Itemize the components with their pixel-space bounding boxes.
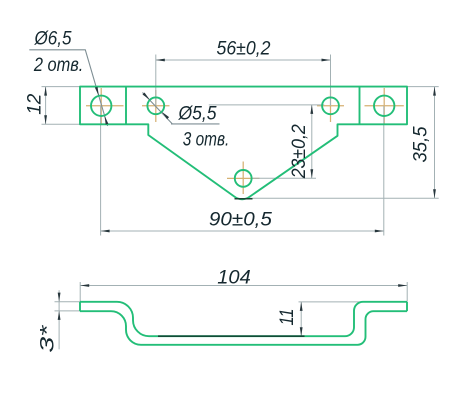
- hole H4 d6.5: [374, 96, 394, 116]
- centerline hole H5: [227, 162, 260, 195]
- dimension 3 line: [58, 290, 60, 349]
- svg-text:104: 104: [217, 267, 251, 289]
- side view right end cap: [406, 302, 408, 311]
- svg-text:12: 12: [23, 94, 45, 115]
- dimension 23 extension lines: [209, 105, 324, 178]
- side view left end cap: [79, 302, 81, 311]
- arrows leader 6,5: [95, 87, 108, 125]
- centerline hole H3: [317, 90, 344, 122]
- dimension 35,5 line: [434, 87, 436, 199]
- dimension 56 extension lines: [156, 55, 331, 106]
- dimension 11 line: [300, 302, 302, 336]
- svg-text:2 отв.: 2 отв.: [33, 54, 83, 76]
- dimension 56 line: [156, 59, 331, 61]
- leader diameter 5,5: [143, 93, 220, 124]
- hole H3 d5.5: [322, 97, 339, 114]
- svg-text:90±0,5: 90±0,5: [209, 209, 272, 231]
- dimension 90 line: [101, 230, 384, 232]
- arrows dimension 56: [156, 59, 331, 62]
- dimension 11 extension line: [299, 301, 364, 303]
- dimension 35,5 extension lines: [249, 87, 438, 199]
- arrows dimension 90: [101, 230, 384, 233]
- arrows dimension 104: [80, 284, 407, 287]
- arrows dimension 3: [58, 293, 61, 320]
- svg-text:11: 11: [276, 309, 298, 326]
- vertex datum dark overlay: [235, 198, 253, 200]
- web top datum dark overlay: [158, 335, 305, 337]
- side view bottom surface: [80, 311, 407, 345]
- dimension 23 line: [311, 105, 313, 178]
- arrows dimension 11: [300, 302, 303, 336]
- dimension 104 extension lines: [80, 282, 407, 302]
- bend line right: [359, 87, 361, 125]
- hole H5 d5.5: [235, 170, 252, 187]
- svg-text:23±0,2: 23±0,2: [288, 124, 310, 179]
- dimension 12 line: [45, 87, 47, 125]
- svg-text:Ø6,5: Ø6,5: [34, 28, 72, 50]
- arrows dimension 12: [44, 87, 47, 125]
- dimension 90 extension lines: [101, 106, 384, 236]
- centerline hole H2: [142, 90, 170, 122]
- centerline hole H4: [365, 88, 404, 125]
- arrows dimension 35,5: [433, 87, 436, 199]
- leader diameter 6,5: [29, 50, 107, 126]
- svg-text:Ø5,5: Ø5,5: [178, 102, 217, 124]
- svg-text:56±0,2: 56±0,2: [217, 38, 271, 60]
- svg-text:35,5: 35,5: [410, 126, 432, 162]
- side view top surface: [80, 302, 407, 336]
- centerline hole H1: [86, 88, 124, 125]
- dimension 12 extension lines: [42, 87, 80, 125]
- bend line left: [125, 87, 127, 125]
- hole H1 d6.5: [91, 96, 111, 116]
- dimension 3 extension lines: [55, 302, 81, 311]
- hole H2 d5.5: [147, 97, 164, 114]
- arrows leader 5,5: [143, 93, 170, 120]
- arrows dimension 23: [310, 105, 313, 178]
- svg-text:3 отв.: 3 отв.: [183, 128, 230, 150]
- part outline top view: [80, 87, 407, 200]
- svg-text:3*: 3*: [36, 324, 58, 353]
- dimension 104 line: [80, 285, 407, 287]
